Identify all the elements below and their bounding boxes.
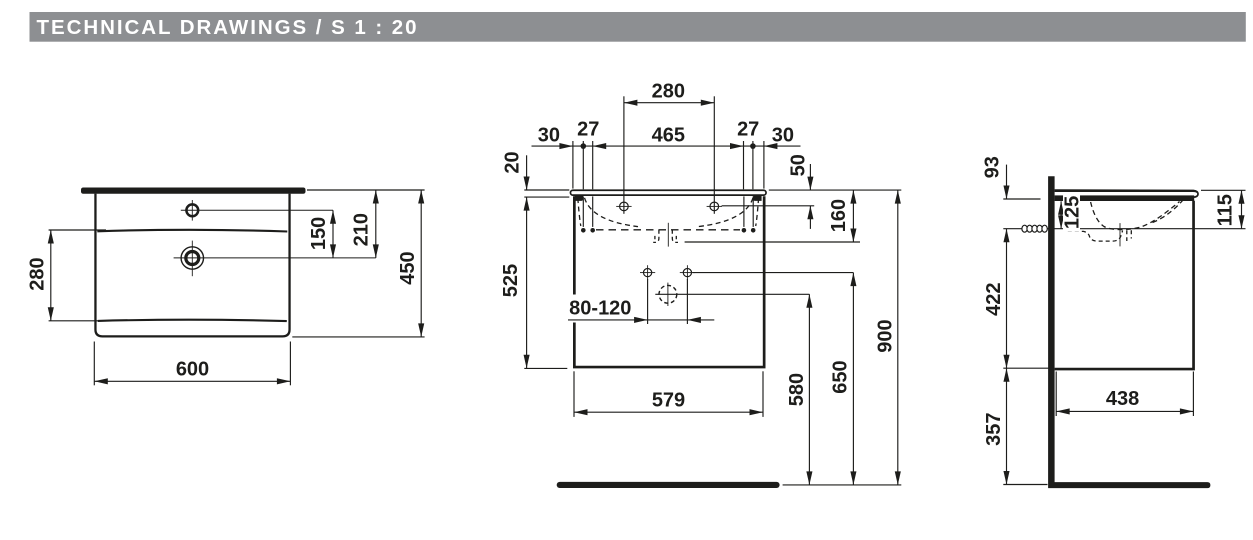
svg-text:115: 115 [1215, 194, 1237, 226]
dim 580 arrow top [806, 294, 812, 308]
dim 210 arrow top [373, 190, 379, 204]
svg-text:27: 27 [737, 118, 759, 140]
dim 80-120 line [568, 319, 714, 321]
dim 650 line [852, 273, 854, 485]
dim 579 arrow right [750, 409, 764, 415]
svg-text:600: 600 [176, 358, 209, 380]
svg-text:50: 50 [788, 154, 810, 176]
floor ext line [783, 484, 902, 486]
dim 465 right arrow [730, 143, 744, 149]
svg-text:125: 125 [1062, 196, 1084, 229]
dim 900 arrow top [895, 190, 901, 204]
siphon dashed left [653, 230, 659, 243]
dim 280 front line [624, 102, 714, 104]
dim 150 arrow bottom [330, 244, 336, 258]
top-view back edge bar [81, 188, 306, 194]
bowl dashed bottom line [596, 229, 740, 231]
dim 580 arrow bottom [806, 471, 812, 485]
floor bar front [557, 482, 780, 488]
dim 438 arrow left [1056, 408, 1070, 414]
dim 115 arrow bottom [1238, 215, 1244, 229]
svg-text:93: 93 [982, 156, 1004, 178]
dim 900 line [897, 190, 899, 485]
bowl dashed steep left [578, 198, 581, 226]
svg-text:210: 210 [351, 213, 373, 246]
dim 160 arrow bottom [850, 229, 856, 243]
dim 30 left arrow [559, 143, 573, 149]
side trap dashed [1068, 231, 1123, 242]
drain v-centerline [191, 241, 193, 277]
dim 80-120 halo [567, 295, 636, 323]
svg-text:TECHNICAL DRAWINGS / S 1 : 20: TECHNICAL DRAWINGS / S 1 : 20 [37, 16, 417, 39]
ext cabinet bottom left [1003, 367, 1051, 369]
dim row 465 line [532, 145, 801, 147]
dim 30 right arrow [764, 143, 778, 149]
faucet cross right [707, 202, 722, 211]
dim 115 line [1241, 190, 1243, 228]
svg-text:450: 450 [397, 251, 419, 284]
header bar [30, 12, 1246, 42]
bowl dashed steep right [756, 198, 759, 226]
svg-text:900: 900 [874, 319, 896, 352]
dim 20 ext top [524, 189, 569, 191]
dim 600 line [94, 380, 290, 382]
svg-text:650: 650 [830, 360, 852, 393]
dim 80-120 arrow right [687, 317, 701, 323]
hanger cross left [640, 265, 655, 280]
washbasin bar front [570, 190, 766, 195]
svg-text:438: 438 [1106, 388, 1139, 410]
mount line left a [582, 196, 584, 227]
ext line basin right edge [763, 141, 765, 189]
top ext line (deck level) [769, 189, 902, 191]
deck side bottom strip [1055, 195, 1195, 201]
dim 438 line [1056, 410, 1193, 412]
drain circle v-line [667, 283, 669, 306]
dim 93 arrow down [1003, 186, 1009, 200]
ext line basin left edge [572, 141, 574, 189]
dim 357 arrow top [1003, 368, 1009, 382]
front centerline [667, 223, 669, 247]
basin lip block left [575, 196, 583, 201]
dim 438 ext left [1055, 372, 1057, 417]
dim 50 ext (faucet level) [722, 205, 815, 207]
faucet hole v-centerline [191, 200, 193, 221]
bowl dashed slope right [698, 198, 753, 227]
hanger cross right [680, 265, 695, 280]
dim 280 arrow top [48, 230, 54, 244]
dim 20/525 arrow up [524, 197, 530, 211]
dim 50 arrow down [807, 177, 813, 191]
mount dot left a [581, 228, 586, 233]
dim 579 ext left [573, 371, 575, 417]
dim 450 line [420, 190, 422, 337]
svg-text:150: 150 [308, 217, 330, 250]
svg-text:579: 579 [652, 390, 685, 412]
dim 160 arrow top [850, 190, 856, 204]
dim 93 line [1006, 165, 1008, 199]
svg-text:30: 30 [772, 125, 794, 147]
wall and floor [1048, 176, 1210, 488]
hanger line to dim 650 [693, 272, 854, 274]
pipe centerline long [1003, 228, 1245, 230]
dim 579 line [574, 411, 763, 413]
dim 280 front arrow right [701, 100, 715, 106]
dim 525 arrow bottom [524, 355, 530, 369]
svg-text:357: 357 [983, 413, 1005, 446]
dim 280 front arrow left [624, 100, 638, 106]
side trap dashed inner b [1130, 230, 1132, 238]
dim 579 arrow left [574, 409, 588, 415]
mount line left b [592, 196, 594, 227]
ext floor left [1003, 484, 1047, 486]
dim 600 ext right [289, 342, 291, 386]
dim 210 arrow bottom [373, 244, 379, 258]
dim 27 left dot [581, 143, 587, 149]
drain line to dim 580 [655, 293, 809, 295]
dim 50 line lower [809, 206, 811, 229]
ext line 280 left (over bar) [623, 96, 625, 214]
dim 80-120 ext left [647, 279, 649, 324]
dim 280 ext bottom [49, 320, 106, 322]
side bowl dashed inner [1150, 200, 1184, 224]
dim 450 ext bottom [292, 336, 424, 338]
dim 450 arrow bottom [418, 323, 424, 337]
dim 80-120 ext right [686, 279, 688, 324]
cabinet outline front [574, 196, 764, 367]
dim 465 left arrow [593, 143, 607, 149]
dim 20 line upper [526, 155, 528, 190]
svg-text:525: 525 [500, 264, 522, 297]
basin lip block right [753, 196, 761, 201]
svg-text:280: 280 [27, 257, 49, 290]
dim 357 arrow bottom [1003, 471, 1009, 485]
dim 600 ext left [93, 342, 95, 386]
mount dot right a [742, 228, 747, 233]
dim 650 arrow top [850, 273, 856, 287]
top-view drain inner circle [186, 252, 199, 265]
drain dashed circle [659, 285, 677, 303]
dim 50 arrow up [807, 206, 813, 220]
deck side top strip [1055, 189, 1199, 198]
dim 125 arrow top [1058, 201, 1064, 215]
dim 280 arrow bottom [48, 307, 54, 321]
dim 600 arrow left [94, 378, 108, 384]
top-view basin outline [95, 194, 289, 337]
dim 150 line [332, 210, 334, 258]
dim 160 line [852, 190, 854, 242]
svg-text:280: 280 [652, 81, 685, 103]
corrugated pipe [1022, 225, 1027, 232]
drain h-centerline / ext to dim 210 [174, 257, 376, 259]
dim 422 line [1006, 229, 1008, 369]
dim 115 arrow top [1238, 190, 1244, 204]
svg-text:465: 465 [652, 125, 685, 147]
svg-text:422: 422 [983, 283, 1005, 316]
dim 438 ext right [1192, 372, 1194, 417]
ext deck top right [1201, 189, 1246, 191]
mount dot right b [751, 228, 756, 233]
top-view drain outer circle [181, 247, 203, 269]
faucet hole h-centerline / ext to dim 150 [181, 209, 333, 211]
dim 422 arrow bottom [1003, 355, 1009, 369]
top-view faucet hole [186, 204, 198, 216]
dim 27 right dot [750, 143, 756, 149]
top-view deck front curve [97, 230, 287, 232]
dim 580 line [808, 294, 810, 485]
svg-text:580: 580 [786, 373, 808, 406]
ext line hole row left a [582, 141, 584, 189]
side trap dashed inner a [1126, 230, 1128, 241]
dim 50 line upper [809, 164, 811, 190]
ext line 280 right (over bar) [713, 96, 715, 214]
dim 150 arrow top [330, 210, 336, 224]
side centerline [1119, 223, 1121, 246]
side bowl dashed outer [1091, 202, 1180, 230]
dim 125 label [1063, 193, 1080, 232]
dim 900 arrow bottom [895, 471, 901, 485]
svg-text:30: 30 [538, 125, 560, 147]
ext line hole row right a [743, 141, 745, 189]
cabinet outline side [1055, 201, 1194, 369]
top ext line right [307, 189, 425, 191]
dim 210 line [375, 190, 377, 258]
bowl dashed slope left [585, 198, 639, 227]
dim 600 arrow right [277, 378, 291, 384]
dim 438 arrow right [1180, 408, 1194, 414]
ext line hole row right b [752, 141, 754, 189]
dim 80-120 arrow left [634, 317, 648, 323]
mount line right b [752, 196, 754, 227]
dim 280 ext top [49, 229, 106, 231]
siphon dashed right [672, 230, 678, 243]
dim 280 line [50, 230, 52, 321]
mount line right a [743, 196, 745, 227]
dim 20 arrow down [524, 177, 530, 191]
svg-text:20: 20 [502, 151, 524, 173]
ext deck bottom left [1003, 198, 1040, 200]
dim 525 line [526, 197, 528, 368]
top-view bottom inner curve [98, 320, 287, 321]
mount dot left b [590, 228, 595, 233]
ext line hole row left b [592, 141, 594, 189]
svg-text:80-120: 80-120 [569, 298, 631, 320]
dim 160 ext bottom [685, 241, 860, 243]
dim 579 ext right [762, 371, 764, 417]
dim 450 arrow top [418, 190, 424, 204]
dim 650 arrow bottom [850, 471, 856, 485]
dim 125 arrow bottom [1058, 215, 1064, 229]
dim 357 line [1006, 368, 1008, 484]
svg-text:160: 160 [828, 199, 850, 232]
dim 20 ext bottom [524, 196, 569, 198]
dim 525 ext bottom [524, 367, 567, 369]
faucet cross left [616, 202, 631, 211]
dim 422 arrow top [1003, 229, 1009, 243]
svg-text:27: 27 [577, 118, 599, 140]
dim 125 line [1060, 201, 1062, 229]
